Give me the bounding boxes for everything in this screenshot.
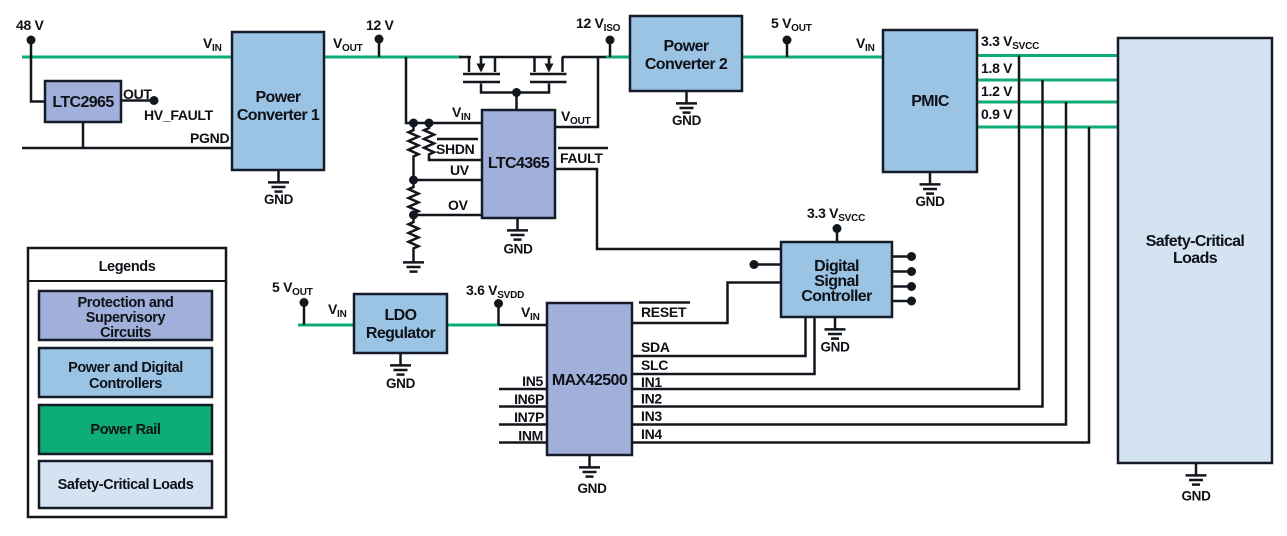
svg-text:IN5: IN5 — [522, 373, 543, 389]
svg-text:MAX42500: MAX42500 — [552, 372, 628, 389]
svg-text:PGND: PGND — [190, 130, 229, 146]
svg-text:Safety-Critical Loads: Safety-Critical Loads — [58, 477, 194, 493]
svg-text:GND: GND — [915, 194, 945, 209]
svg-text:GND: GND — [1181, 489, 1211, 504]
svg-text:Regulator: Regulator — [366, 325, 436, 342]
svg-text:FAULT: FAULT — [560, 150, 603, 166]
svg-text:5 VOUT: 5 VOUT — [771, 15, 812, 34]
svg-text:VIN: VIN — [856, 35, 875, 54]
svg-text:LTC4365: LTC4365 — [488, 155, 550, 172]
svg-text:Protection and: Protection and — [78, 295, 174, 311]
svg-text:48 V: 48 V — [16, 17, 45, 33]
svg-text:Circuits: Circuits — [100, 325, 151, 341]
svg-text:Legends: Legends — [99, 259, 156, 275]
svg-text:IN1: IN1 — [641, 374, 662, 390]
svg-text:IN2: IN2 — [641, 391, 662, 407]
svg-text:12 VISO: 12 VISO — [576, 15, 621, 34]
svg-text:OV: OV — [448, 197, 469, 213]
svg-text:5 VOUT: 5 VOUT — [272, 279, 313, 298]
svg-text:GND: GND — [503, 242, 533, 257]
svg-text:HV_FAULT: HV_FAULT — [144, 107, 214, 123]
svg-text:3.6 VSVDD: 3.6 VSVDD — [466, 282, 524, 301]
svg-text:IN7P: IN7P — [514, 409, 544, 425]
svg-text:LDO: LDO — [385, 307, 417, 324]
svg-text:LTC2965: LTC2965 — [52, 94, 114, 111]
svg-text:RESET: RESET — [641, 304, 687, 320]
svg-text:VIN: VIN — [328, 301, 347, 320]
svg-text:GND: GND — [386, 376, 416, 391]
svg-text:Controllers: Controllers — [89, 376, 162, 392]
svg-text:GND: GND — [672, 113, 702, 128]
svg-text:GND: GND — [577, 481, 607, 496]
svg-text:GND: GND — [820, 340, 850, 355]
svg-text:Supervisory: Supervisory — [86, 310, 166, 326]
svg-text:Controller: Controller — [801, 288, 872, 305]
svg-text:Power: Power — [255, 89, 300, 106]
svg-text:3.3 VSVCC: 3.3 VSVCC — [807, 205, 865, 224]
svg-text:VOUT: VOUT — [333, 35, 363, 54]
svg-text:IN3: IN3 — [641, 408, 662, 424]
svg-text:0.9 V: 0.9 V — [981, 106, 1013, 122]
svg-text:SHDN: SHDN — [436, 141, 475, 157]
svg-text:IN6P: IN6P — [514, 391, 544, 407]
svg-text:Power: Power — [663, 38, 708, 55]
svg-text:VOUT: VOUT — [561, 108, 591, 127]
svg-text:1.8 V: 1.8 V — [981, 60, 1013, 76]
svg-text:SDA: SDA — [641, 339, 670, 355]
svg-text:VIN: VIN — [452, 104, 471, 123]
svg-text:Converter 1: Converter 1 — [237, 107, 320, 124]
svg-text:12 V: 12 V — [366, 17, 395, 33]
svg-text:INM: INM — [518, 428, 543, 444]
svg-text:SLC: SLC — [641, 357, 668, 373]
svg-text:1.2 V: 1.2 V — [981, 83, 1013, 99]
svg-text:Power and Digital: Power and Digital — [68, 360, 183, 376]
svg-text:Safety-Critical: Safety-Critical — [1146, 233, 1245, 250]
svg-text:Loads: Loads — [1173, 250, 1218, 267]
svg-text:IN4: IN4 — [641, 426, 662, 442]
svg-text:3.3 VSVCC: 3.3 VSVCC — [981, 33, 1039, 52]
svg-text:GND: GND — [264, 192, 294, 207]
svg-text:UV: UV — [450, 162, 470, 178]
svg-text:Power Rail: Power Rail — [90, 422, 160, 438]
svg-text:Converter 2: Converter 2 — [645, 56, 728, 73]
svg-text:VIN: VIN — [521, 304, 540, 323]
svg-text:OUT: OUT — [123, 86, 152, 102]
svg-text:PMIC: PMIC — [911, 93, 950, 110]
svg-text:VIN: VIN — [203, 35, 222, 54]
